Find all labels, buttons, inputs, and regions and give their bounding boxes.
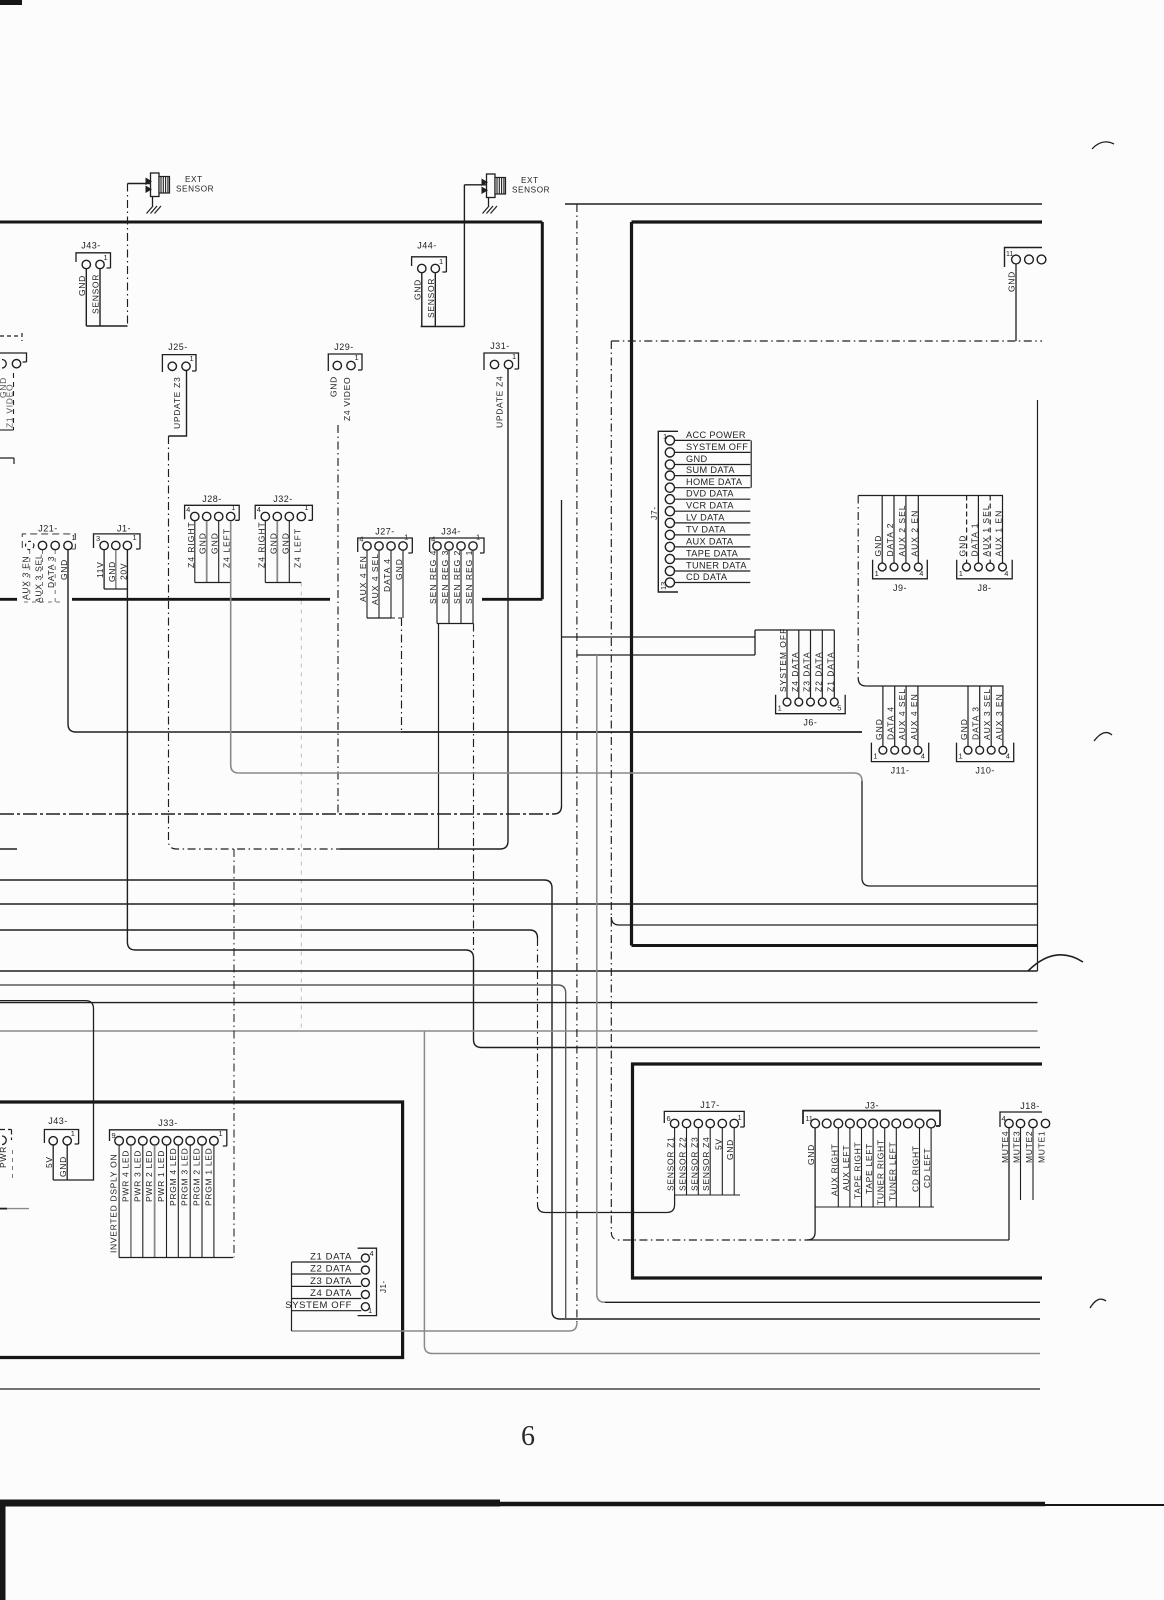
- svg-text:J3-: J3-: [865, 1101, 879, 1111]
- wire - J11 pins to bus: [882, 686, 884, 746]
- wire - J28 Z4 LEFT net: [231, 521, 239, 773]
- wire - J27 pin stubs: [366, 550, 368, 618]
- svg-text:J1-: J1-: [117, 524, 131, 534]
- wire - J34 pin stubs: [448, 550, 450, 624]
- wire - J32 pin stubs: [264, 521, 266, 583]
- svg-text:J8-: J8-: [977, 583, 991, 593]
- svg-text:J43-: J43-: [81, 241, 101, 251]
- svg-text:PRGM 3 LED: PRGM 3 LED: [180, 1148, 190, 1207]
- binding mark 1: [1092, 142, 1114, 149]
- wire - edge connector GND drop: [1015, 264, 1017, 341]
- wire - J9 pins to bus: [881, 496, 883, 564]
- connector J44 (sensor input): [412, 241, 447, 319]
- svg-text:PWR: PWR: [0, 1146, 8, 1168]
- wire - net G row 930: [0, 930, 538, 938]
- connector J10: [957, 688, 1014, 776]
- wire - J43 pins tie: [52, 1146, 54, 1181]
- connector J3: [803, 1101, 940, 1206]
- svg-text:J6-: J6-: [803, 718, 817, 728]
- svg-text:11: 11: [806, 1116, 813, 1123]
- wire - right terminator riser: [1037, 400, 1039, 971]
- wire - lower right block border: [633, 1064, 1043, 1278]
- svg-text:Z3 DATA: Z3 DATA: [310, 1276, 352, 1287]
- connector at lower left page edge (cut): [0, 1130, 13, 1181]
- binding mark 4: [1090, 1299, 1106, 1308]
- svg-text:J31-: J31-: [490, 341, 510, 351]
- wire - net I row 985: [0, 985, 566, 1319]
- svg-text:J25-: J25-: [168, 342, 188, 352]
- connector at left page edge (cut): [0, 333, 27, 464]
- wire - net B row 773 with drop: [239, 773, 862, 781]
- wire - net C row 814: [0, 806, 562, 814]
- svg-text:J28-: J28-: [202, 494, 222, 504]
- wire - dash riser x234: [233, 849, 235, 1258]
- svg-text:4: 4: [919, 569, 923, 578]
- svg-text:GND: GND: [1007, 271, 1017, 292]
- connector J28: [185, 494, 240, 568]
- svg-text:1: 1: [439, 257, 443, 266]
- svg-text:1: 1: [959, 569, 963, 578]
- wire - riser x611 dash-dot: [611, 341, 805, 1240]
- ground - EXT SENSOR 1: [147, 206, 162, 214]
- wire - net E row 904: [0, 903, 1038, 905]
- svg-text:TV DATA: TV DATA: [686, 524, 726, 534]
- svg-text:HOME DATA: HOME DATA: [686, 477, 743, 487]
- svg-text:LV DATA: LV DATA: [686, 512, 725, 522]
- svg-text:1: 1: [959, 752, 963, 761]
- svg-text:1: 1: [738, 1113, 742, 1122]
- connector J9: [873, 505, 928, 593]
- wire - Z4 VIDEO net: [337, 425, 339, 814]
- wire - J1 power tie: [103, 550, 105, 589]
- wire - EXT SENSOR 2 lead: [464, 184, 486, 186]
- svg-text:1: 1: [404, 533, 408, 542]
- wire - net J row 1002: [0, 1002, 1038, 1004]
- svg-text:J44-: J44-: [417, 241, 437, 251]
- svg-text:6: 6: [667, 1114, 671, 1123]
- svg-text:SENSOR: SENSOR: [176, 185, 214, 194]
- svg-text:4: 4: [370, 1249, 374, 1258]
- wire - J27 GND net: [402, 550, 404, 618]
- wire - next page left rule: [0, 1500, 6, 1600]
- wire - riser x537: [537, 938, 539, 1205]
- connector J29: [328, 342, 362, 421]
- svg-text:1: 1: [219, 1129, 223, 1138]
- svg-text:1: 1: [190, 354, 194, 363]
- ground - EXT SENSOR 2: [483, 206, 498, 214]
- svg-text:1: 1: [71, 1129, 75, 1138]
- wire - J6 feed lower: [577, 654, 755, 656]
- wire - lower left block border: [0, 1102, 403, 1358]
- sensor EXT SENSOR 2: [482, 174, 551, 206]
- wire - right block bottom border: [632, 944, 1038, 947]
- connector at top right page edge (cut): [1005, 248, 1046, 293]
- svg-text:PRGM 4 LED: PRGM 4 LED: [168, 1148, 178, 1207]
- wire - SEN REG 4 net: [436, 550, 438, 624]
- binding mark 3: [1028, 955, 1083, 971]
- wire - net K row 1031: [0, 1030, 1038, 1032]
- connector J43 (sensor input): [76, 241, 111, 315]
- wire - UPDATE Z3 net: [169, 371, 187, 436]
- svg-text:SYSTEM OFF: SYSTEM OFF: [686, 442, 748, 452]
- wire - bottom rule row 1389: [0, 1388, 1040, 1390]
- connector J21: [21, 524, 76, 604]
- wire - J32 stub down: [300, 583, 302, 1032]
- svg-text:DVD DATA: DVD DATA: [686, 489, 734, 499]
- svg-text:SYSTEM OFF: SYSTEM OFF: [285, 1300, 352, 1311]
- wire - SEN REG 1 net: [472, 550, 474, 624]
- connector J43 (display board): [44, 1116, 78, 1177]
- connector J1 (zone data): [285, 1248, 388, 1331]
- wire - J8 pins to bus: [966, 496, 968, 564]
- svg-text:TAPE DATA: TAPE DATA: [686, 549, 739, 559]
- svg-text:ACC POWER: ACC POWER: [686, 430, 746, 440]
- svg-text:Z4 VIDEO: Z4 VIDEO: [342, 377, 352, 421]
- wire - left block right border: [541, 222, 544, 599]
- svg-text:SENSOR: SENSOR: [512, 186, 550, 195]
- wire - J33 pin stubs: [118, 1145, 120, 1257]
- svg-text:Z4 LEFT: Z4 LEFT: [292, 528, 302, 568]
- svg-text:J1-: J1-: [379, 1280, 388, 1293]
- wire - J43 pins to sensor lead: [85, 269, 87, 326]
- svg-text:1: 1: [231, 503, 235, 512]
- svg-text:J9-: J9-: [893, 583, 907, 593]
- wire - riser x424: [424, 1031, 1040, 1354]
- wire - net L feed to J43: [0, 1001, 94, 1180]
- wire - J21 GND net: [68, 550, 862, 732]
- wire - 20V net: [127, 550, 1040, 1048]
- svg-text:GND: GND: [328, 376, 338, 397]
- sensor EXT SENSOR 1: [146, 173, 215, 206]
- connector J33 (LED panel): [109, 1118, 227, 1253]
- svg-text:GND: GND: [413, 279, 423, 300]
- wire - J11/J10 bus: [866, 685, 1003, 687]
- svg-text:4: 4: [1002, 1114, 1006, 1123]
- svg-text:PRGM 1 LED: PRGM 1 LED: [203, 1148, 213, 1207]
- wire - edge stub row 1208: [0, 1208, 7, 1210]
- svg-text:J43-: J43-: [48, 1116, 68, 1126]
- wire - MUTE4 net: [1008, 1128, 1010, 1240]
- svg-text:Z2 DATA: Z2 DATA: [310, 1264, 352, 1275]
- svg-text:4: 4: [257, 505, 261, 514]
- wire - net H row 971: [0, 970, 1038, 972]
- svg-text:9: 9: [112, 1131, 116, 1140]
- svg-text:UPDATE Z4: UPDATE Z4: [495, 376, 505, 428]
- svg-text:J32-: J32-: [273, 494, 293, 504]
- wire - J6 pins to bus: [786, 630, 788, 698]
- wire - J44 pins to sensor lead: [421, 273, 423, 327]
- wire - EXT SENSOR 1 lead: [128, 183, 151, 185]
- svg-text:1: 1: [104, 253, 108, 262]
- connector J27: [358, 527, 413, 606]
- svg-text:J18-: J18-: [1020, 1101, 1040, 1111]
- wire - net D row 880: [0, 880, 1040, 1319]
- svg-text:Z4 DATA: Z4 DATA: [310, 1288, 352, 1299]
- svg-text:TUNER DATA: TUNER DATA: [686, 561, 747, 571]
- svg-text:5: 5: [837, 704, 841, 713]
- svg-text:VCR DATA: VCR DATA: [686, 501, 734, 511]
- svg-text:4: 4: [1004, 569, 1008, 578]
- svg-text:1: 1: [304, 503, 308, 512]
- svg-text:4: 4: [921, 752, 925, 761]
- svg-text:J7-: J7-: [649, 506, 659, 520]
- svg-text:SENSOR: SENSOR: [91, 274, 101, 314]
- svg-text:J11-: J11-: [891, 766, 910, 776]
- wire - next page top rule: [0, 1500, 500, 1507]
- svg-text:1: 1: [133, 533, 137, 542]
- svg-text:6: 6: [521, 1421, 535, 1452]
- svg-text:Z1 DATA: Z1 DATA: [310, 1252, 352, 1263]
- svg-text:SUM DATA: SUM DATA: [686, 465, 735, 475]
- connector J34: [428, 527, 484, 605]
- wire - left block bottom thick bus: [0, 598, 542, 601]
- connector J8: [957, 505, 1013, 593]
- svg-text:AUX DATA: AUX DATA: [686, 536, 734, 546]
- wire - net F row 925: [611, 917, 1037, 925]
- connector J1 (power): [94, 524, 141, 583]
- svg-text:1: 1: [368, 1306, 372, 1315]
- svg-text:J33-: J33-: [158, 1118, 178, 1128]
- svg-text:CD DATA: CD DATA: [686, 572, 728, 582]
- wire - left block top border: [0, 221, 542, 224]
- svg-text:PWR 1 LED: PWR 1 LED: [156, 1150, 166, 1202]
- wire - J28 pin stubs: [194, 521, 196, 583]
- wire - UPDATE Z4 net: [340, 369, 508, 849]
- wire - J6 bus: [755, 629, 834, 631]
- wire - J6 feed upper: [562, 636, 756, 638]
- svg-text:4: 4: [1006, 752, 1010, 761]
- svg-text:EXT: EXT: [521, 176, 539, 185]
- wire - riser x596: [597, 655, 605, 1302]
- svg-text:EXT: EXT: [185, 175, 203, 184]
- svg-text:PWR 3 LED: PWR 3 LED: [132, 1150, 142, 1202]
- svg-text:4: 4: [359, 535, 363, 544]
- wire - J9/J8 bus: [858, 495, 1003, 497]
- wire - net A row 732: [402, 731, 863, 733]
- svg-text:J34-: J34-: [441, 527, 461, 537]
- svg-text:GND: GND: [77, 275, 87, 296]
- connector J18: [1000, 1101, 1050, 1163]
- page edge mark top left: [0, 0, 22, 5]
- connector J17: [664, 1100, 744, 1191]
- wire - J10 pins to bus: [967, 686, 969, 746]
- connector J25: [162, 342, 196, 429]
- svg-text:INVERTED DSPLY ON: INVERTED DSPLY ON: [109, 1154, 119, 1253]
- wire - J3 GND net: [807, 1128, 815, 1240]
- wire - J17 pin stubs: [674, 1128, 676, 1195]
- svg-text:J29-: J29-: [334, 342, 354, 352]
- wire - right block left border: [630, 222, 633, 946]
- svg-text:1: 1: [72, 533, 76, 542]
- svg-text:J21-: J21-: [38, 524, 58, 534]
- svg-text:4: 4: [431, 535, 435, 544]
- svg-text:1: 1: [778, 704, 782, 713]
- wire - dashed rail to edge connector: [611, 340, 1042, 342]
- svg-text:J10-: J10-: [975, 766, 995, 776]
- svg-text:PWR 2 LED: PWR 2 LED: [144, 1150, 154, 1202]
- svg-text:J17-: J17-: [700, 1100, 720, 1110]
- svg-text:UPDATE Z3: UPDATE Z3: [172, 377, 182, 429]
- wire - net row 1240 solid part: [805, 1239, 1009, 1241]
- svg-text:MUTE1: MUTE1: [1037, 1131, 1047, 1163]
- svg-text:PRGM 2 LED: PRGM 2 LED: [192, 1148, 202, 1207]
- binding mark 2: [1094, 733, 1112, 741]
- wire - J18 pin stubs: [1020, 1128, 1022, 1200]
- wire - J3 pin stubs: [837, 1128, 839, 1207]
- svg-text:1: 1: [875, 569, 879, 578]
- svg-text:3: 3: [96, 534, 100, 543]
- connector J31: [484, 341, 519, 428]
- svg-text:1: 1: [512, 352, 516, 361]
- wire - riser x576: [292, 1323, 577, 1331]
- svg-text:PWR 4 LED: PWR 4 LED: [120, 1150, 130, 1202]
- connector J6: [776, 628, 846, 728]
- svg-text:1: 1: [355, 353, 359, 362]
- svg-text:1: 1: [476, 533, 480, 542]
- connector J7: [649, 430, 751, 592]
- connector J11: [871, 688, 928, 776]
- wire - top rail: [565, 203, 1042, 205]
- wire - right block top border: [632, 220, 1043, 223]
- svg-text:1: 1: [873, 752, 877, 761]
- wire - riser x561: [561, 500, 563, 807]
- svg-text:GND: GND: [686, 454, 707, 464]
- svg-text:J27-: J27-: [375, 527, 395, 537]
- svg-text:4: 4: [186, 505, 190, 514]
- connector J32: [255, 494, 312, 568]
